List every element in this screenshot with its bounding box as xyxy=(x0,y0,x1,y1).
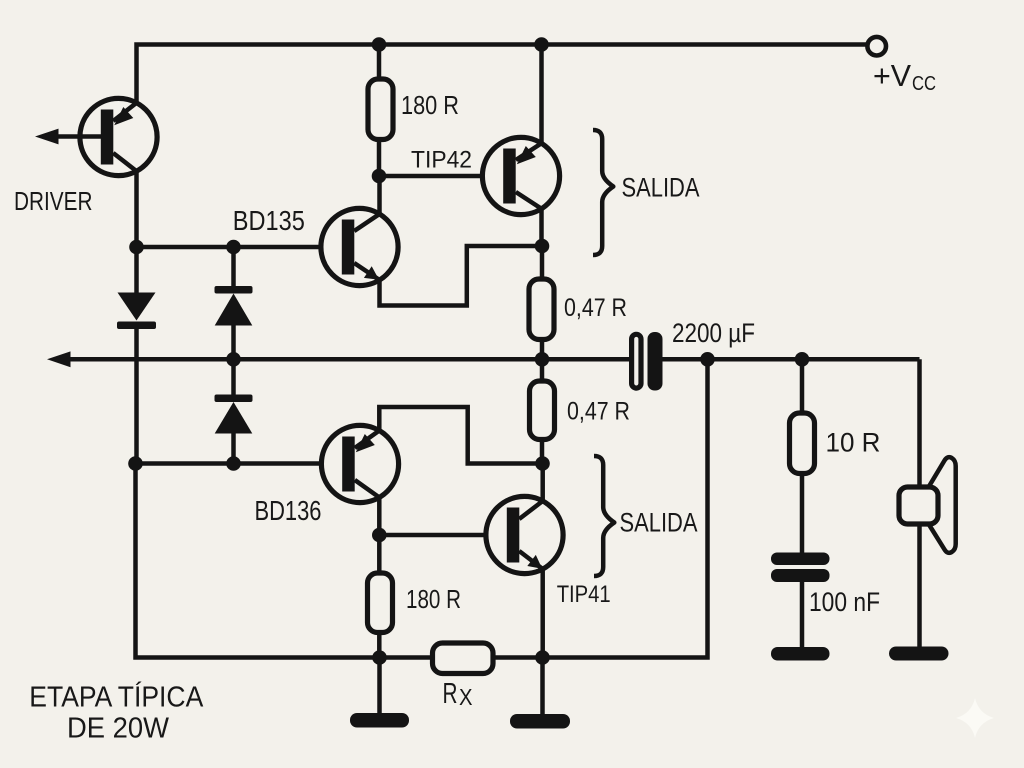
node G D3 bottom junction xyxy=(226,456,241,471)
wire node D to 0.47R xyxy=(540,246,545,280)
resistor R3 0.47R top xyxy=(529,279,554,340)
svg-text:0,47 R: 0,47 R xyxy=(567,398,630,426)
resistor R2 180R bottom xyxy=(368,573,393,633)
capacitor C2 100nF plate top xyxy=(771,553,830,566)
wire 10R to 100nF xyxy=(800,473,805,553)
svg-text:DE 20W: DE 20W xyxy=(67,713,169,745)
node F left column junction xyxy=(128,456,143,471)
wire 0.47R bottom to node E xyxy=(540,439,545,464)
svg-text:SALIDA: SALIDA xyxy=(620,508,698,538)
terminal +Vcc open circle xyxy=(867,37,886,56)
arrow input arrowhead left xyxy=(35,129,59,145)
capacitor C2 100nF plate bottom xyxy=(771,569,830,582)
svg-text:TIP41: TIP41 xyxy=(557,581,611,608)
wire 100nF to ground xyxy=(800,582,805,648)
transistor Q3 TIP42 (PNP) xyxy=(482,137,559,214)
wire BD135 emitter route to node D xyxy=(380,246,543,306)
node C1 right junction xyxy=(700,352,715,367)
wire 10R branch down xyxy=(800,359,805,413)
diode D3 (pointing up) xyxy=(215,359,253,464)
node E 0.47R-TIP41 junction xyxy=(535,456,550,471)
ground bar under TIP41 xyxy=(510,714,570,729)
wire speaker branch down xyxy=(917,359,922,647)
svg-text:10 R: 10 R xyxy=(826,428,881,458)
node rail-TIP42 junction xyxy=(534,37,549,52)
transistor Q2 BD135 (NPN) xyxy=(321,208,398,285)
wire 0.47R to mid rail xyxy=(540,340,545,360)
diode D2 (pointing up) xyxy=(215,247,253,359)
wire BD136 emitter route to node E xyxy=(379,407,542,464)
wire TIP42 collector up to rail xyxy=(539,45,544,144)
resistor R6 10R xyxy=(790,413,815,474)
ground bar under 100nF xyxy=(771,647,830,661)
svg-text:180 R: 180 R xyxy=(401,92,459,120)
speaker LS1 magnet box xyxy=(899,487,938,524)
wire 180R to node C xyxy=(377,140,382,177)
node I 180R-ground junction xyxy=(372,650,387,665)
node mid-rail 0.47R junction xyxy=(535,352,550,367)
wire TIP41 collector up to node E xyxy=(540,464,545,502)
wire TIP41 emitter down to node J xyxy=(540,569,545,658)
svg-text:2200 µF: 2200 µF xyxy=(672,318,755,348)
svg-text:DRIVER: DRIVER xyxy=(14,186,93,216)
wire TIP42 emitter down xyxy=(539,209,544,247)
node D TIP42 emitter junction xyxy=(535,239,550,254)
svg-text:BD136: BD136 xyxy=(255,495,322,526)
wire node J to ground stub xyxy=(540,658,545,716)
svg-text:100 nF: 100 nF xyxy=(809,587,880,617)
wire node C1-right down and left to Rx xyxy=(493,359,708,657)
node A Q1-D1 junction xyxy=(129,240,144,255)
wire BD135 collector up to node C xyxy=(377,176,382,214)
resistor R5 Rx (horizontal) xyxy=(433,643,494,674)
node C 180R-TIP42 base xyxy=(372,169,387,184)
decorative watermark star xyxy=(956,698,994,738)
wire mid rail right of C1 xyxy=(663,357,920,362)
svg-text:CC: CC xyxy=(912,72,936,95)
node B D2 top junction xyxy=(226,240,241,255)
arrow output arrowhead left xyxy=(47,351,71,367)
node D2-D3 mid-rail junction xyxy=(226,352,241,367)
ground bar under 180R xyxy=(350,713,409,728)
svg-text:X: X xyxy=(459,684,473,710)
transistor Q5 TIP41 (NPN) xyxy=(486,496,563,573)
transistor Q1 DRIVER (PNP) xyxy=(80,98,157,175)
wire mid rail to 0.47R bottom xyxy=(540,359,545,381)
diode D1 (pointing down) xyxy=(117,247,156,464)
wire mid output rail xyxy=(64,357,629,362)
wire node F to BD136 base xyxy=(136,461,344,466)
svg-text:BD135: BD135 xyxy=(233,205,305,236)
node 10R tap junction xyxy=(795,352,810,367)
wire Q1 emitter down to node A xyxy=(134,171,139,247)
svg-text:SALIDA: SALIDA xyxy=(622,173,700,203)
wire node C to TIP42 base xyxy=(379,174,504,179)
wire rail to 180R top xyxy=(377,45,382,81)
svg-text:R: R xyxy=(443,678,458,710)
wire node H to 180R bottom xyxy=(377,535,382,574)
ground bar under speaker xyxy=(889,647,949,661)
svg-text:+V: +V xyxy=(873,58,911,93)
speaker LS1 horn cone xyxy=(928,457,956,553)
wire left column down and right to Rx xyxy=(136,464,433,658)
brace SALIDA bottom xyxy=(594,456,614,576)
node J TIP41 emitter-ground junction xyxy=(535,650,550,665)
resistor R4 0.47R bottom xyxy=(530,381,555,440)
svg-text:0,47 R: 0,47 R xyxy=(564,294,627,322)
capacitor C1 2200uF plate right (solid) xyxy=(648,332,663,391)
wire BD136 collector down to node H xyxy=(377,497,382,535)
svg-text:180 R: 180 R xyxy=(406,586,461,614)
node rail-180R junction xyxy=(372,37,387,52)
wire node A to BD135 base xyxy=(137,245,343,250)
wire Q1 base lead going left xyxy=(56,134,101,139)
transistor Q4 BD136 (PNP) xyxy=(321,425,398,502)
wire node H to TIP41 base xyxy=(379,533,507,538)
resistor R1 180R top xyxy=(368,79,393,140)
wire node I to ground stub xyxy=(377,658,382,715)
wire 180R bottom to node I xyxy=(377,632,382,658)
wire top VCC rail with corner down to Q1 collector xyxy=(137,45,868,104)
brace SALIDA top xyxy=(593,130,613,255)
capacitor C1 2200uF plate left (hollow) xyxy=(632,334,641,388)
node H BD136-TIP41 base-180R xyxy=(372,528,387,543)
svg-text:TIP42: TIP42 xyxy=(411,147,472,174)
svg-text:ETAPA TÍPICA: ETAPA TÍPICA xyxy=(29,682,203,714)
